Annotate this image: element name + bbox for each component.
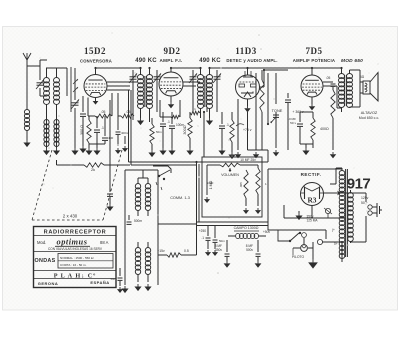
- plate blocking cap .05: [323, 76, 336, 86]
- svg-text:11D3: 11D3: [235, 46, 257, 56]
- label 300 ohm: [80, 125, 84, 135]
- antenna: [23, 53, 31, 110]
- resistor AVC 2M: [150, 118, 154, 150]
- tube V4 7D5 envelope: [301, 75, 323, 97]
- wire IF1 bottom to bus: [132, 112, 134, 120]
- output transformer core: [345, 75, 347, 106]
- svg-text:490 KC: 490 KC: [135, 58, 157, 64]
- svg-text:Mod 650 c.c.: Mod 650 c.c.: [359, 116, 380, 120]
- label PILOTO: [292, 248, 305, 259]
- tube V3 11D3 envelope: [236, 71, 260, 99]
- nameplate row divider 1: [34, 235, 117, 237]
- ground x125: [122, 136, 128, 152]
- tiny label 1 near volume box: [265, 182, 267, 186]
- label R3: [307, 196, 316, 205]
- ground below antenna coil: [23, 140, 30, 147]
- power transformer primary: [348, 190, 354, 243]
- svg-text:917: 917: [347, 176, 371, 193]
- label +50v: [263, 230, 270, 234]
- wire V1 plate lines to right: [107, 82, 137, 90]
- volume wire and arrow: [204, 165, 258, 203]
- svg-text:GERONA: GERONA: [38, 281, 59, 286]
- ground below tuning C1: [71, 148, 78, 155]
- marks near switch box: [332, 228, 338, 246]
- output transformer primary: [339, 68, 345, 112]
- label output transformer MOD 650: [341, 58, 363, 64]
- svg-text:(+: (+: [332, 228, 335, 232]
- speaker cone: [370, 73, 378, 102]
- wire IF1 secondary to V2 grid: [149, 118, 151, 122]
- svg-text:+75 v: +75 v: [243, 128, 252, 132]
- label tube V1 type 15D2: [84, 46, 106, 56]
- IF2 transformer frame: [193, 70, 217, 112]
- wire interstage vertical a: [253, 73, 259, 158]
- IF1 core lamination: [144, 76, 146, 107]
- resistor 300 ohm oscillator: [87, 116, 91, 148]
- tone capacitor: [273, 115, 279, 156]
- band switch COMM contacts: [153, 166, 171, 190]
- svg-text:2 x 430: 2 x 430: [63, 214, 78, 219]
- svg-text:2k: 2k: [91, 168, 95, 172]
- svg-text:ONDAS: ONDAS: [35, 258, 56, 264]
- svg-text:50m: 50m: [111, 277, 117, 281]
- ground electrolytic: [106, 204, 113, 211]
- dashed tuning-gang link right: [103, 150, 122, 220]
- svg-text:.1: .1: [167, 120, 170, 124]
- svg-text:Mod.: Mod.: [37, 240, 46, 245]
- svg-text:9D2: 9D2: [164, 46, 181, 56]
- label RECTIF: [301, 172, 322, 177]
- electrolytic 8MF 500v: [246, 240, 262, 268]
- svg-text:450v: 450v: [215, 248, 222, 252]
- wire rectifier output: [323, 191, 350, 196]
- tiny label 50m near IF1: [156, 130, 162, 134]
- svg-text:AMPL F.I.: AMPL F.I.: [159, 58, 182, 63]
- wire osc coils top: [138, 170, 148, 178]
- electrolytic capacitor on B+: [107, 165, 113, 204]
- svg-text:300Ω: 300Ω: [183, 125, 187, 134]
- wire bus right side down: [268, 222, 278, 230]
- wire top rail antenna stage: [46, 68, 67, 96]
- svg-text:+250: +250: [199, 229, 206, 233]
- svg-text:500m: 500m: [134, 219, 142, 223]
- rectifier wiring box: [268, 169, 300, 222]
- field coil CAMPO: [228, 231, 266, 239]
- wire switch box right: [341, 242, 343, 262]
- cathode below V4: [309, 97, 315, 110]
- wire V1 below envelope box: [88, 93, 112, 116]
- oscillator coil bottom-left: [135, 242, 140, 282]
- audio resistor .005: [243, 170, 249, 214]
- wire transformer to line plug top: [351, 193, 367, 202]
- nameplate title RADIORRECEPTOR: [44, 230, 107, 236]
- label 360v: [292, 110, 304, 114]
- oscillator coil top-right: [145, 178, 150, 216]
- terminal circle top: [302, 233, 307, 238]
- ground screen cap: [159, 148, 166, 155]
- trimmer capacitor across antenna coil: [36, 79, 44, 89]
- svg-text:10 MF 25v: 10 MF 25v: [240, 158, 256, 162]
- ground below bypass caps: [93, 148, 100, 155]
- cathode capacitor 100m: [169, 112, 184, 148]
- wire top rail V4 to output transformer: [312, 67, 342, 69]
- cathode bypass capacitor 10m: [287, 112, 303, 144]
- svg-text:MOD 650: MOD 650: [341, 58, 363, 64]
- tone control pot with arrow: [270, 73, 276, 123]
- capacitor .1 at bus: [201, 226, 211, 257]
- ground below L1: [43, 148, 50, 155]
- nameplate ESPANA: [90, 280, 109, 285]
- decoupling resistor 2k: [84, 163, 104, 172]
- wire top rail IF2 to V3: [210, 67, 248, 69]
- power transformer core: [346, 169, 348, 257]
- label 10MF 25v small: [0, 0, 1, 1]
- svg-text:.05: .05: [326, 76, 331, 80]
- wire antenna tap to coupling loop: [27, 60, 47, 66]
- first audio box outline: [202, 157, 262, 217]
- junction dots on top rail: [94, 67, 342, 71]
- ground cap IF2: [218, 148, 225, 155]
- cathode box under V2: [160, 100, 180, 119]
- IF1 primary coil: [138, 68, 144, 118]
- wire rectifier bottom loop: [284, 205, 345, 218]
- IF1 secondary coil: [147, 68, 153, 118]
- ground below IF1 primary: [137, 118, 144, 125]
- screen cap under V1: [115, 93, 129, 154]
- ground rectifier center tap: [295, 211, 302, 220]
- wire to decoupling resistor: [57, 160, 129, 165]
- wire V3 pin drops: [235, 99, 241, 158]
- resistor 300 ohm V2 cathode: [183, 112, 192, 148]
- rectifier plates and filament: [301, 187, 324, 200]
- label 917: [347, 176, 371, 193]
- svg-text:.1: .1: [101, 126, 104, 130]
- padder capacitor: [80, 96, 86, 146]
- svg-text:50m: 50m: [219, 239, 225, 243]
- nameplate optimus: [55, 238, 90, 247]
- capacitor near nameplate right: [111, 268, 124, 293]
- wire grid cap V1: [95, 68, 97, 75]
- wire V3 to volume box: [248, 112, 269, 157]
- antenna series coil: [24, 110, 29, 131]
- nameplate valve note: [48, 247, 103, 251]
- label +75v near V3: [236, 124, 252, 132]
- capacitor 50m at bus: [212, 226, 225, 257]
- svg-text:P L A H↓ Cº: P L A H↓ Cº: [54, 273, 97, 280]
- volume potentiometer: [220, 163, 240, 172]
- wire B+ lower bus: [196, 222, 268, 226]
- label V3 function DETEC y AUDIO AMPL: [226, 58, 277, 63]
- oscillator grid resistor .05: [95, 110, 112, 118]
- capacitor 10MF 25v: [240, 158, 256, 162]
- capacitor 500m osc: [127, 215, 143, 224]
- label speaker ALTAVOZ: [359, 111, 380, 120]
- svg-text:CON VALVULAS INGLESAS 16 SERV: CON VALVULAS INGLESAS 16 SERV: [48, 247, 103, 251]
- svg-text:ALTAVOZ: ALTAVOZ: [361, 111, 378, 115]
- svg-text:88 A: 88 A: [100, 240, 109, 245]
- svg-text:300 Ω: 300 Ω: [80, 125, 84, 135]
- nameplate row divider 4: [34, 278, 117, 280]
- coupling capacitor 500: [285, 93, 291, 150]
- wire interstage vertical b: [267, 73, 269, 125]
- ground AVC resistor: [148, 150, 155, 157]
- dashed tuning-gang link left: [32, 150, 52, 220]
- ground osc bottom-right: [144, 284, 151, 291]
- ground below padder: [79, 146, 86, 153]
- wire V2 plate to IF2: [183, 82, 200, 86]
- wire bottom bus to osc: [158, 224, 196, 255]
- svg-text:400: 400: [108, 136, 113, 140]
- terminal circle right: [317, 230, 342, 245]
- cathode arrow inside V1: [93, 99, 99, 105]
- wire IF2 secondary down to AF box: [203, 112, 205, 157]
- label tuning gang 2 x 430: [63, 214, 78, 219]
- label tube V4 type 7D5: [306, 46, 323, 56]
- label V4 function AMPLIF POTENCIA: [293, 58, 335, 63]
- ground below oscillator resistor: [85, 144, 105, 155]
- svg-text:RADIORRECEPTOR: RADIORRECEPTOR: [44, 230, 107, 236]
- ground osc bottom-left: [134, 284, 141, 291]
- audio resistor second: [255, 165, 261, 214]
- small resistor right of IF2: [190, 107, 200, 115]
- wire grid cap V3: [247, 68, 249, 75]
- ground cathode cap: [168, 148, 175, 155]
- cathode arrow below V2: [168, 96, 174, 108]
- IF2 primary coil: [198, 68, 204, 118]
- electrolytic 8MF 450v: [215, 240, 231, 268]
- label tube V3 type 11D3: [235, 46, 257, 56]
- bypass capacitor .1 below V1: [94, 116, 104, 144]
- wire V3 plate up and right: [260, 70, 288, 87]
- dashed tuning-gang link bottom: [32, 219, 103, 221]
- svg-text:0.5: 0.5: [184, 249, 189, 253]
- nameplate outer box: [34, 227, 117, 288]
- wire rectifier plate to transformer: [300, 168, 342, 170]
- svg-text:.1: .1: [226, 123, 229, 127]
- wire grid cap V2: [170, 68, 172, 72]
- ground osc left rail: [121, 286, 128, 293]
- wire top rail V2 to IF2: [171, 67, 200, 69]
- svg-text:RECTIF.: RECTIF.: [301, 172, 322, 177]
- nameplate bands sub-box: [58, 254, 113, 269]
- label 125v 50hz: [361, 196, 369, 205]
- svg-text:COMM. 1-3: COMM. 1-3: [170, 196, 190, 200]
- wire transformer to line plug bottom: [351, 216, 367, 242]
- label CAMPO 1300 ohm: [234, 226, 259, 230]
- wire osc to resistor: [158, 222, 197, 255]
- wire second audio bus: [275, 112, 277, 118]
- svg-text:CORTA : 16 - 50 m.: CORTA : 16 - 50 m.: [60, 263, 87, 267]
- tube V2 9D2 envelope: [159, 72, 183, 96]
- svg-text:DETEC y AUDIO AMPL.: DETEC y AUDIO AMPL.: [226, 58, 277, 63]
- svg-text:125 MA: 125 MA: [307, 219, 319, 223]
- tuning gang section C1 with rotor arrow: [71, 67, 79, 148]
- IF2 secondary coil: [207, 68, 213, 118]
- wire V4 plate to output transformer: [323, 86, 342, 108]
- IF2 core lamination: [204, 76, 206, 107]
- svg-text:4Ω: 4Ω: [360, 75, 365, 79]
- svg-text:1040: 1040: [207, 181, 214, 185]
- label TONE: [272, 108, 283, 113]
- IF1 trimmer top: [129, 73, 137, 83]
- svg-text:400Ω: 400Ω: [320, 127, 329, 131]
- oscillator coil bottom-right: [145, 242, 150, 282]
- nameplate 88A: [100, 240, 109, 245]
- svg-text:500v: 500v: [246, 248, 253, 252]
- svg-text:.05: .05: [101, 110, 106, 114]
- label IF frequency 490 KC (left): [135, 58, 157, 64]
- power switch: [289, 232, 301, 242]
- svg-text:optimus: optimus: [57, 238, 88, 247]
- ground below IF2 primary: [206, 118, 213, 125]
- svg-text:CAMPO 1300Ω: CAMPO 1300Ω: [234, 226, 259, 230]
- svg-text:.005: .005: [239, 182, 243, 188]
- wire B+ bus: [129, 157, 269, 165]
- wire cathode network top: [300, 111, 313, 113]
- mains plug: [368, 203, 382, 217]
- wire AVC bus: [110, 100, 130, 165]
- IF1 transformer frame: [133, 70, 157, 112]
- svg-text:0+: 0+: [334, 242, 338, 246]
- nameplate NORMAL band: [60, 256, 94, 260]
- small circle terminal rectifier: [324, 208, 332, 218]
- svg-text:AMPLIF POTENCIA: AMPLIF POTENCIA: [293, 58, 335, 63]
- oscillator section frame: [125, 170, 158, 285]
- label COMM 1-3: [170, 196, 190, 200]
- wire antenna coil to ground: [26, 130, 28, 140]
- tiny label .005: [239, 182, 243, 188]
- label 350v 125 MA: [307, 215, 319, 223]
- tiny label 1040: [207, 181, 214, 185]
- pilot lamp: [301, 238, 308, 251]
- power transformer filament winding: [339, 242, 345, 263]
- power transformer HV secondary top: [336, 168, 345, 200]
- wire grid cap V4: [311, 68, 313, 75]
- svg-text:CONVERSORA: CONVERSORA: [80, 59, 112, 64]
- antenna coil secondary L2: [54, 68, 60, 148]
- svg-text:R3: R3: [307, 196, 316, 205]
- capacitor 400m below V1: [102, 116, 113, 144]
- ground cathode network V4: [300, 144, 313, 155]
- plate load resistor long: [260, 70, 264, 150]
- output transformer secondary: [347, 74, 353, 108]
- scan speckles: [40, 32, 379, 273]
- wire top rail V3 to V4: [248, 67, 313, 69]
- svg-text:VOLUMEN: VOLUMEN: [221, 173, 239, 177]
- wire pilot to ground: [308, 242, 318, 269]
- nameplate CORTA band: [60, 263, 87, 267]
- nameplate Mod: [37, 240, 46, 245]
- tube V1 15D2 envelope: [84, 75, 107, 98]
- svg-text:15D2: 15D2: [84, 46, 106, 56]
- resistor +15v 0.5: [157, 249, 189, 257]
- main vertical bus pair: [129, 90, 132, 165]
- feedback resistor near output transformer: [330, 87, 336, 158]
- wire trimmer leads: [40, 60, 47, 96]
- label V1 function CONVERSORA: [80, 59, 112, 64]
- oscillator coil link wire: [95, 98, 97, 105]
- antenna coil primary L1: [44, 68, 50, 148]
- nameplate row divider 2: [34, 251, 117, 253]
- svg-text:ESPAÑA: ESPAÑA: [90, 280, 109, 285]
- diode load resistor: [230, 112, 234, 152]
- label tube V2 type 9D2: [164, 46, 181, 56]
- svg-text:125v: 125v: [361, 196, 369, 200]
- wire secondary to speaker: [350, 70, 364, 107]
- svg-text:.1: .1: [201, 236, 204, 240]
- cathode bias resistor 400 ohm: [311, 112, 329, 148]
- svg-text:50 ~: 50 ~: [361, 201, 368, 205]
- tube V5 R3 rectifier envelope: [301, 183, 324, 206]
- label 4 ohm voice coil: [360, 75, 365, 79]
- IF2 trimmer top: [189, 73, 197, 83]
- svg-text:50 v: 50 v: [290, 121, 296, 125]
- svg-text:NORMAL : 1500 - 550 kc: NORMAL : 1500 - 550 kc: [60, 256, 94, 260]
- svg-text:TONE: TONE: [272, 108, 283, 113]
- nameplate GERONA: [38, 281, 59, 286]
- wave-band coil L3: [44, 120, 49, 147]
- screen capacitor .1: [160, 112, 170, 148]
- label 1 Mohm: [209, 180, 213, 189]
- wire filament to rectifier: [330, 168, 336, 184]
- nameplate PLA HT C: [54, 273, 97, 280]
- svg-text:490 KC: 490 KC: [199, 58, 221, 64]
- capacitor .1 IF2: [219, 112, 229, 148]
- svg-text:+50v: +50v: [263, 230, 270, 234]
- switch box outline: [278, 230, 326, 241]
- svg-text:7D5: 7D5: [306, 46, 323, 56]
- oscillator coil top-left: [135, 178, 140, 216]
- wire top rail V1 to IF1: [96, 67, 141, 69]
- speaker voice coil: [363, 81, 370, 94]
- wave-band coil L4: [54, 120, 59, 147]
- label V2 function AMPL F.I.: [159, 58, 182, 63]
- second grid resistor .05: [118, 110, 134, 118]
- ground below L2: [53, 148, 60, 155]
- nameplate row divider 3: [34, 270, 117, 272]
- label IF frequency 490 KC (right): [199, 58, 221, 64]
- ground V2 cathode resistor: [186, 148, 193, 155]
- power transformer secondary mid: [339, 200, 345, 243]
- wire V3 grid return: [203, 107, 207, 113]
- svg-text:50m: 50m: [156, 130, 162, 134]
- svg-text:400m: 400m: [121, 131, 129, 135]
- label +250v: [199, 229, 206, 233]
- small trimmer arrows antenna section: [73, 79, 78, 92]
- label VOLUMEN: [221, 173, 239, 177]
- IF2 trimmer bottom: [213, 73, 221, 83]
- IF1 trimmer bottom: [153, 73, 161, 83]
- nameplate ONDAS: [35, 258, 56, 264]
- wire bus vertical pair: [195, 161, 199, 222]
- svg-text:PILOTO: PILOTO: [292, 255, 305, 259]
- cathode below V3: [244, 100, 250, 113]
- ground diode load: [228, 152, 235, 159]
